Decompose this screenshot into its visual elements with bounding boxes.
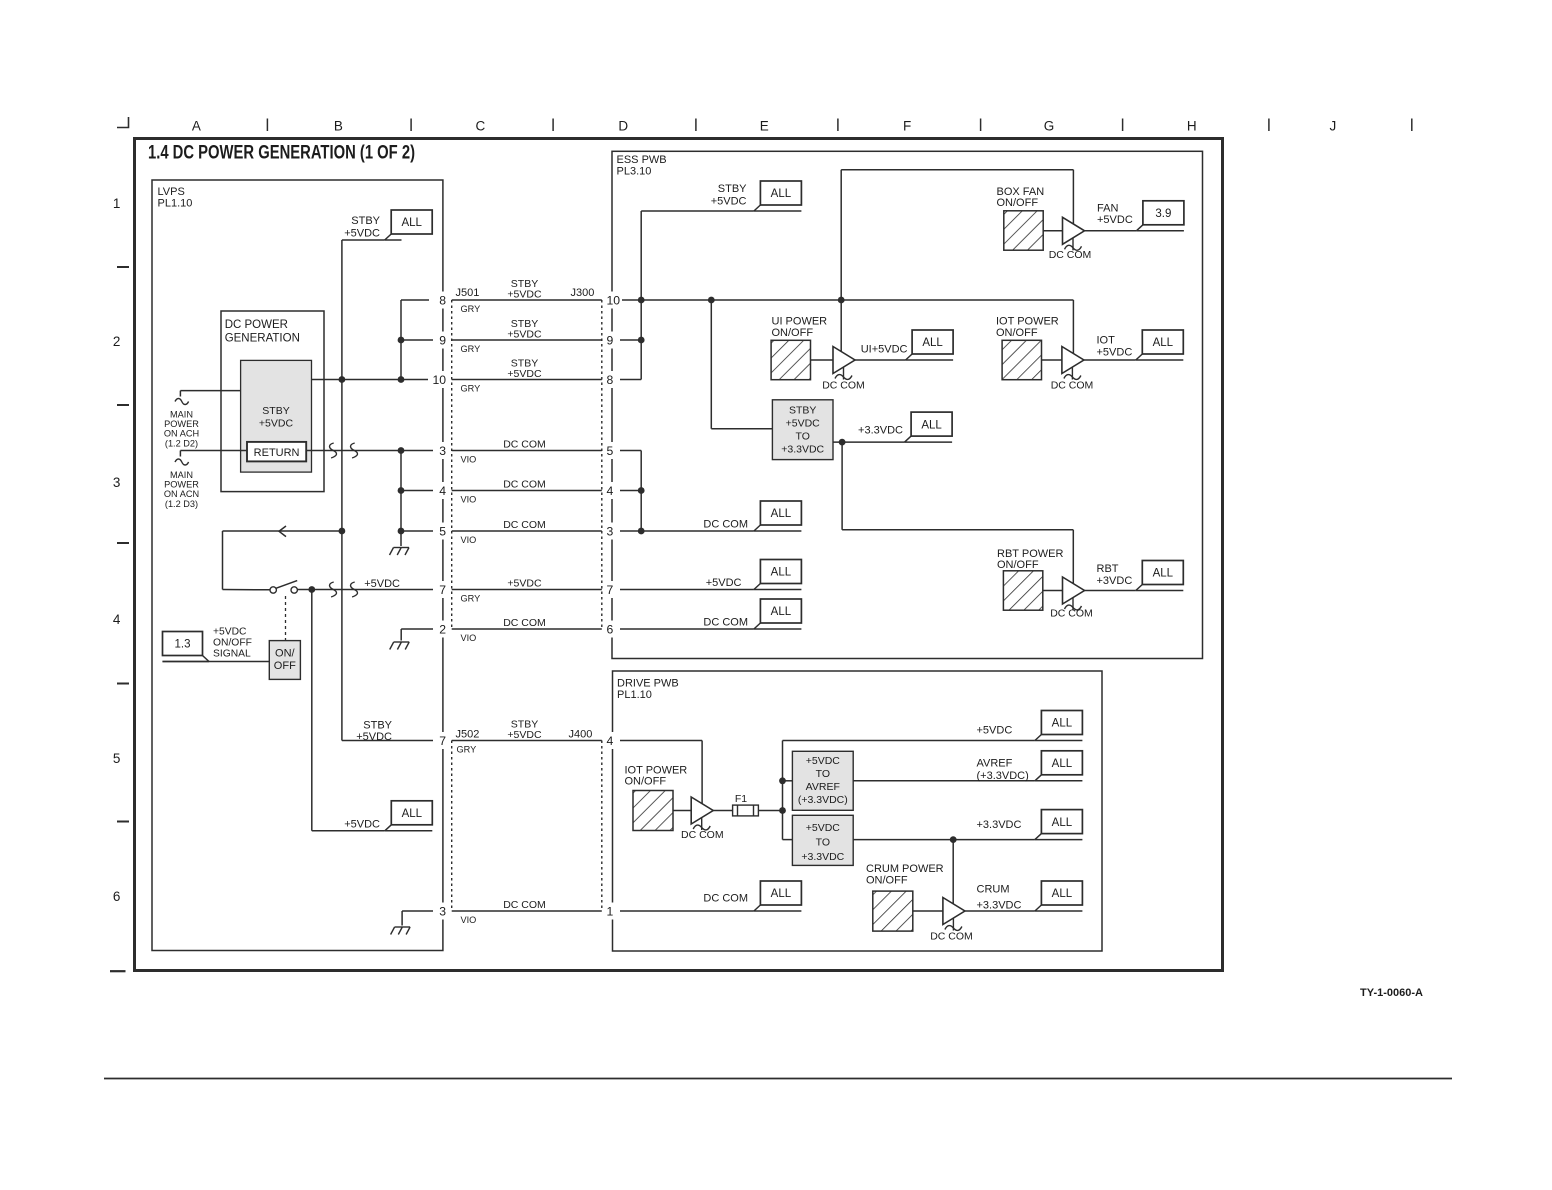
svg-text:3: 3 (439, 444, 446, 458)
svg-text:+5VDC: +5VDC (356, 731, 392, 743)
svg-text:5: 5 (113, 751, 121, 766)
svg-text:(1.2 D2): (1.2 D2) (165, 438, 198, 448)
svg-text:DC COM: DC COM (703, 519, 748, 531)
svg-text:DC COM: DC COM (822, 379, 865, 391)
svg-text:UI POWER: UI POWER (772, 316, 828, 328)
svg-text:9: 9 (607, 334, 614, 348)
svg-text:3: 3 (113, 475, 121, 490)
svg-text:D: D (618, 119, 628, 134)
svg-text:2: 2 (439, 623, 446, 637)
svg-text:8: 8 (607, 373, 614, 387)
svg-text:+5VDC: +5VDC (507, 368, 542, 380)
svg-text:RBT: RBT (1097, 563, 1119, 575)
svg-text:MAIN: MAIN (170, 470, 193, 480)
svg-text:+5VDC: +5VDC (786, 418, 821, 430)
svg-text:(+3.3VDC): (+3.3VDC) (798, 794, 848, 806)
svg-text:VIO: VIO (461, 455, 477, 465)
svg-text:C: C (476, 119, 486, 134)
svg-text:1.4 DC POWER GENERATION (1 OF: 1.4 DC POWER GENERATION (1 OF 2) (148, 143, 415, 164)
svg-text:+3.3VDC: +3.3VDC (977, 900, 1022, 912)
svg-text:4: 4 (607, 484, 614, 498)
svg-text:AVREF: AVREF (806, 781, 840, 793)
svg-text:DC COM: DC COM (503, 617, 546, 629)
svg-text:10: 10 (432, 373, 446, 387)
svg-text:GRY: GRY (461, 384, 481, 394)
svg-text:2: 2 (113, 334, 121, 349)
svg-text:DC COM: DC COM (503, 899, 546, 911)
svg-text:A: A (192, 119, 201, 134)
svg-text:F1: F1 (735, 793, 747, 805)
svg-text:+3.3VDC: +3.3VDC (781, 444, 824, 456)
svg-text:GRY: GRY (461, 344, 481, 354)
svg-text:ALL: ALL (921, 419, 942, 431)
svg-text:7: 7 (607, 583, 614, 597)
svg-text:+5VDC: +5VDC (1097, 347, 1133, 359)
svg-text:ON/OFF: ON/OFF (625, 776, 667, 788)
svg-text:+3.3VDC: +3.3VDC (977, 819, 1022, 831)
svg-text:ON ACN: ON ACN (164, 489, 199, 499)
svg-text:PL1.10: PL1.10 (617, 689, 652, 701)
svg-text:TY-1-0060-A: TY-1-0060-A (1360, 987, 1423, 999)
svg-text:4: 4 (607, 734, 614, 748)
svg-text:(1.2 D3): (1.2 D3) (165, 499, 198, 509)
svg-text:+5VDC: +5VDC (507, 329, 542, 341)
svg-text:ALL: ALL (1052, 888, 1073, 900)
svg-text:ON/OFF: ON/OFF (772, 327, 814, 339)
svg-text:DC COM: DC COM (503, 519, 546, 531)
svg-text:+5VDC: +5VDC (806, 822, 841, 834)
svg-text:DC POWER: DC POWER (225, 319, 288, 331)
svg-text:VIO: VIO (461, 535, 477, 545)
svg-text:SIGNAL: SIGNAL (213, 649, 251, 660)
svg-text:OFF: OFF (274, 660, 296, 672)
svg-text:ON ACH: ON ACH (164, 429, 199, 439)
svg-text:VIO: VIO (461, 915, 477, 925)
svg-text:ESS PWB: ESS PWB (617, 154, 667, 166)
svg-text:ALL: ALL (922, 337, 943, 349)
svg-text:ON/OFF: ON/OFF (866, 875, 908, 887)
svg-text:ON/OFF: ON/OFF (997, 559, 1039, 571)
svg-text:7: 7 (439, 583, 446, 597)
svg-text:POWER: POWER (164, 419, 199, 429)
svg-text:STBY: STBY (262, 405, 289, 417)
svg-text:J400: J400 (569, 729, 593, 741)
svg-text:+5VDC: +5VDC (977, 725, 1013, 737)
svg-text:E: E (760, 119, 769, 134)
svg-text:AVREF: AVREF (977, 758, 1013, 770)
svg-text:3.9: 3.9 (1155, 208, 1171, 220)
svg-text:ALL: ALL (1052, 758, 1073, 770)
svg-text:3: 3 (607, 525, 614, 539)
svg-text:GRY: GRY (461, 304, 481, 314)
svg-text:+5VDC: +5VDC (507, 729, 542, 741)
svg-text:RETURN: RETURN (254, 447, 300, 459)
svg-text:POWER: POWER (164, 480, 199, 490)
svg-text:ALL: ALL (401, 217, 422, 229)
svg-text:STBY: STBY (718, 183, 747, 195)
svg-text:ON/OFF: ON/OFF (996, 327, 1038, 339)
svg-text:TO: TO (816, 837, 830, 849)
svg-text:ON/OFF: ON/OFF (213, 638, 252, 649)
svg-text:STBY: STBY (351, 215, 380, 227)
svg-text:5: 5 (607, 444, 614, 458)
svg-text:ON/: ON/ (275, 648, 296, 660)
svg-text:ALL: ALL (1052, 718, 1073, 730)
svg-text:DC COM: DC COM (1049, 249, 1092, 261)
svg-text:STBY: STBY (789, 405, 816, 417)
svg-text:DC COM: DC COM (930, 931, 973, 943)
svg-text:+5VDC: +5VDC (259, 418, 294, 430)
svg-text:4: 4 (439, 484, 446, 498)
svg-text:J501: J501 (456, 287, 480, 299)
svg-text:+5VDC: +5VDC (1097, 214, 1133, 226)
svg-text:UI+5VDC: UI+5VDC (861, 344, 908, 356)
svg-text:+3.3VDC: +3.3VDC (858, 425, 903, 437)
svg-text:J300: J300 (571, 287, 595, 299)
svg-text:TO: TO (816, 768, 830, 780)
svg-text:B: B (334, 119, 343, 134)
svg-text:(+3.3VDC): (+3.3VDC) (977, 770, 1029, 782)
svg-text:+5VDC: +5VDC (344, 819, 380, 831)
svg-text:ALL: ALL (1153, 568, 1174, 580)
svg-text:+5VDC: +5VDC (711, 196, 747, 208)
svg-text:PL3.10: PL3.10 (617, 166, 652, 178)
svg-text:7: 7 (439, 734, 446, 748)
svg-text:TO: TO (795, 431, 809, 443)
svg-text:6: 6 (113, 889, 121, 904)
svg-text:IOT: IOT (1097, 335, 1116, 347)
svg-text:8: 8 (439, 294, 446, 308)
svg-text:DC COM: DC COM (1050, 608, 1093, 620)
svg-text:MAIN: MAIN (170, 409, 193, 419)
svg-text:LVPS: LVPS (158, 186, 185, 198)
svg-text:DC COM: DC COM (1051, 379, 1094, 391)
svg-text:STBY: STBY (363, 720, 392, 732)
svg-text:CRUM POWER: CRUM POWER (866, 863, 944, 875)
svg-text:6: 6 (607, 623, 614, 637)
svg-text:DC COM: DC COM (503, 439, 546, 451)
svg-text:FAN: FAN (1097, 203, 1118, 215)
svg-text:GENERATION: GENERATION (225, 333, 300, 345)
svg-text:GRY: GRY (461, 594, 481, 604)
svg-text:+5VDC: +5VDC (507, 578, 542, 590)
svg-text:DC COM: DC COM (703, 617, 748, 629)
svg-text:+5VDC: +5VDC (213, 627, 247, 638)
svg-text:+5VDC: +5VDC (507, 289, 542, 301)
svg-text:VIO: VIO (461, 495, 477, 505)
svg-text:ON/OFF: ON/OFF (997, 197, 1039, 209)
svg-text:J502: J502 (456, 729, 480, 741)
svg-text:IOT POWER: IOT POWER (996, 316, 1059, 328)
svg-text:+5VDC: +5VDC (806, 755, 841, 767)
svg-text:5: 5 (439, 525, 446, 539)
svg-text:ALL: ALL (1052, 817, 1073, 829)
svg-text:G: G (1044, 119, 1055, 134)
svg-text:+3.3VDC: +3.3VDC (801, 851, 844, 863)
svg-text:DC COM: DC COM (503, 479, 546, 491)
svg-text:DC COM: DC COM (703, 893, 748, 905)
svg-text:+5VDC: +5VDC (364, 578, 400, 590)
svg-text:PL1.10: PL1.10 (158, 198, 193, 210)
svg-text:1.3: 1.3 (175, 639, 191, 651)
svg-text:ALL: ALL (771, 188, 792, 200)
svg-text:ALL: ALL (771, 508, 792, 520)
svg-text:J: J (1330, 119, 1337, 134)
svg-text:ALL: ALL (771, 606, 792, 618)
svg-text:ALL: ALL (1153, 337, 1174, 349)
svg-text:CRUM: CRUM (977, 884, 1010, 896)
svg-text:+5VDC: +5VDC (706, 577, 742, 589)
svg-text:DRIVE PWB: DRIVE PWB (617, 678, 679, 690)
svg-text:1: 1 (113, 196, 121, 211)
svg-text:10: 10 (607, 294, 621, 308)
svg-text:+3VDC: +3VDC (1097, 575, 1133, 587)
svg-text:ALL: ALL (771, 567, 792, 579)
svg-text:VIO: VIO (461, 633, 477, 643)
svg-text:H: H (1187, 119, 1197, 134)
svg-text:ALL: ALL (771, 888, 792, 900)
svg-text:4: 4 (113, 612, 121, 627)
svg-text:GRY: GRY (457, 745, 477, 755)
svg-text:9: 9 (439, 334, 446, 348)
svg-text:ALL: ALL (402, 808, 423, 820)
svg-text:1: 1 (607, 905, 614, 919)
svg-text:DC COM: DC COM (681, 829, 724, 841)
svg-text:3: 3 (439, 905, 446, 919)
svg-text:+5VDC: +5VDC (344, 228, 380, 240)
svg-text:F: F (903, 119, 911, 134)
